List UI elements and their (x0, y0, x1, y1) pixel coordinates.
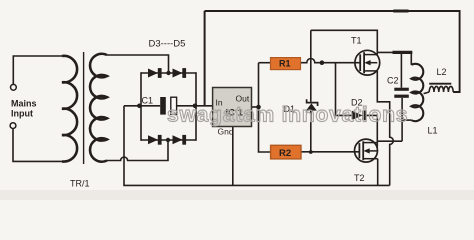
wire D1 vertical upper (rect corner through hop to zener) (310, 30, 312, 102)
bridge diode bottom-right (173, 135, 187, 145)
wire R1 left lead (259, 62, 271, 64)
transformer core (83, 52, 85, 164)
wire IC1 Out (252, 106, 259, 108)
resistor R1 (271, 58, 301, 70)
wire T2 gate from R2 (301, 151, 360, 153)
junction dot IC1 Out (256, 105, 261, 110)
svg-text:swagatam innovations: swagatam innovations (167, 104, 408, 127)
transistor T2 (MOSFET) (355, 139, 378, 162)
wire secondary top to bridge (107, 55, 169, 73)
svg-text:R2: R2 (279, 148, 291, 159)
wire C2 bottom / tank bottom vertical (401, 98, 403, 141)
wire bridge bottom rail (141, 139, 196, 141)
wire mains top (13, 56, 62, 84)
wire T2 drain to tank bottom (377, 140, 402, 142)
wire D2 branch from gate1 down (336, 63, 353, 116)
wire bridge top rail (141, 72, 196, 74)
svg-text:Gnd: Gnd (218, 127, 234, 137)
bottom gray band (0, 190, 474, 200)
wire D1 vertical lower to R2/gate2 line (310, 110, 312, 152)
svg-text:T2: T2 (354, 173, 365, 183)
bridge diode top-left (148, 68, 162, 78)
wire DC negative: down and bottom ground rail (124, 106, 390, 186)
junction dot bridge AC top (166, 71, 170, 75)
mains terminal top (11, 84, 17, 90)
svg-text:C2: C2 (387, 76, 399, 86)
wire L2 left lead to L1 tap (424, 92, 430, 94)
thick tick on top rail (393, 10, 408, 13)
junction dot gate1/D2 branch (320, 60, 325, 65)
transformer TR/1 primary winding (62, 56, 77, 162)
svg-text:T1: T1 (351, 36, 362, 46)
svg-text:R1: R1 (279, 59, 291, 69)
wire middle rail right (C1 right lead to IC1 In) (177, 105, 213, 107)
wire +V riser to top rail (204, 11, 206, 106)
svg-text:TR/1: TR/1 (70, 179, 90, 189)
wire secondary bottom to bridge (hop over negative line) (107, 140, 168, 161)
svg-text:L1: L1 (428, 126, 438, 136)
svg-text:L2: L2 (437, 67, 447, 77)
mains terminal bottom (10, 123, 16, 129)
svg-text:Input: Input (11, 109, 33, 119)
junction dot middle rail left (137, 104, 142, 109)
svg-text:Out: Out (236, 94, 250, 104)
wire mains bottom (13, 129, 62, 162)
resistor R2 (271, 145, 301, 159)
bridge diode bottom-left (148, 135, 162, 145)
wire bridge right vertical (195, 72, 197, 141)
inductor L2 (choke) with core bar (429, 83, 451, 85)
svg-text:D3----D5: D3----D5 (149, 39, 186, 50)
bridge diode top-right (173, 68, 187, 78)
zener diode D1 (306, 99, 318, 110)
junction dot middle rail right (193, 104, 198, 109)
wire middle rail left (C1 left lead) (124, 105, 160, 107)
wire C2 top lead (400, 52, 402, 87)
wire T1 drain rectangle top (311, 30, 378, 54)
wire L2 right lead (453, 91, 459, 93)
wire bridge left vertical (140, 72, 142, 141)
op-amp/regulator IC1 (213, 88, 252, 127)
diode D2 (352, 111, 366, 121)
capacitor C2 (394, 88, 409, 91)
junction dot bridge AC bottom (166, 138, 170, 142)
transistor T1 (MOSFET) (355, 50, 380, 75)
wire D2 cathode to T2 drain (366, 115, 378, 147)
wire L1 bottom lead (402, 119, 411, 121)
wire top rail and right-side drop to L2 (205, 11, 460, 92)
svg-text:Mains: Mains (11, 98, 37, 108)
junction dot D1 bottom on gate2 line (309, 150, 313, 154)
svg-text:C1: C1 (142, 96, 154, 106)
wire T1 source to ground (jog + hop over tank wire) (377, 71, 393, 185)
wire tank top rail from T1 drain (377, 52, 411, 65)
transformer TR/1 secondary winding (90, 54, 107, 162)
inductor L1 (work coil) (411, 64, 423, 121)
wire T2 source to ground rail (377, 159, 379, 186)
wire gate-supply vertical from Out, to R2 left lead (259, 63, 271, 152)
wire IC1 Gnd to ground rail (232, 127, 234, 186)
wire R1 right lead to T1 gate (hop over D1 line) (301, 59, 360, 63)
thick segment on tank rail (393, 51, 413, 54)
